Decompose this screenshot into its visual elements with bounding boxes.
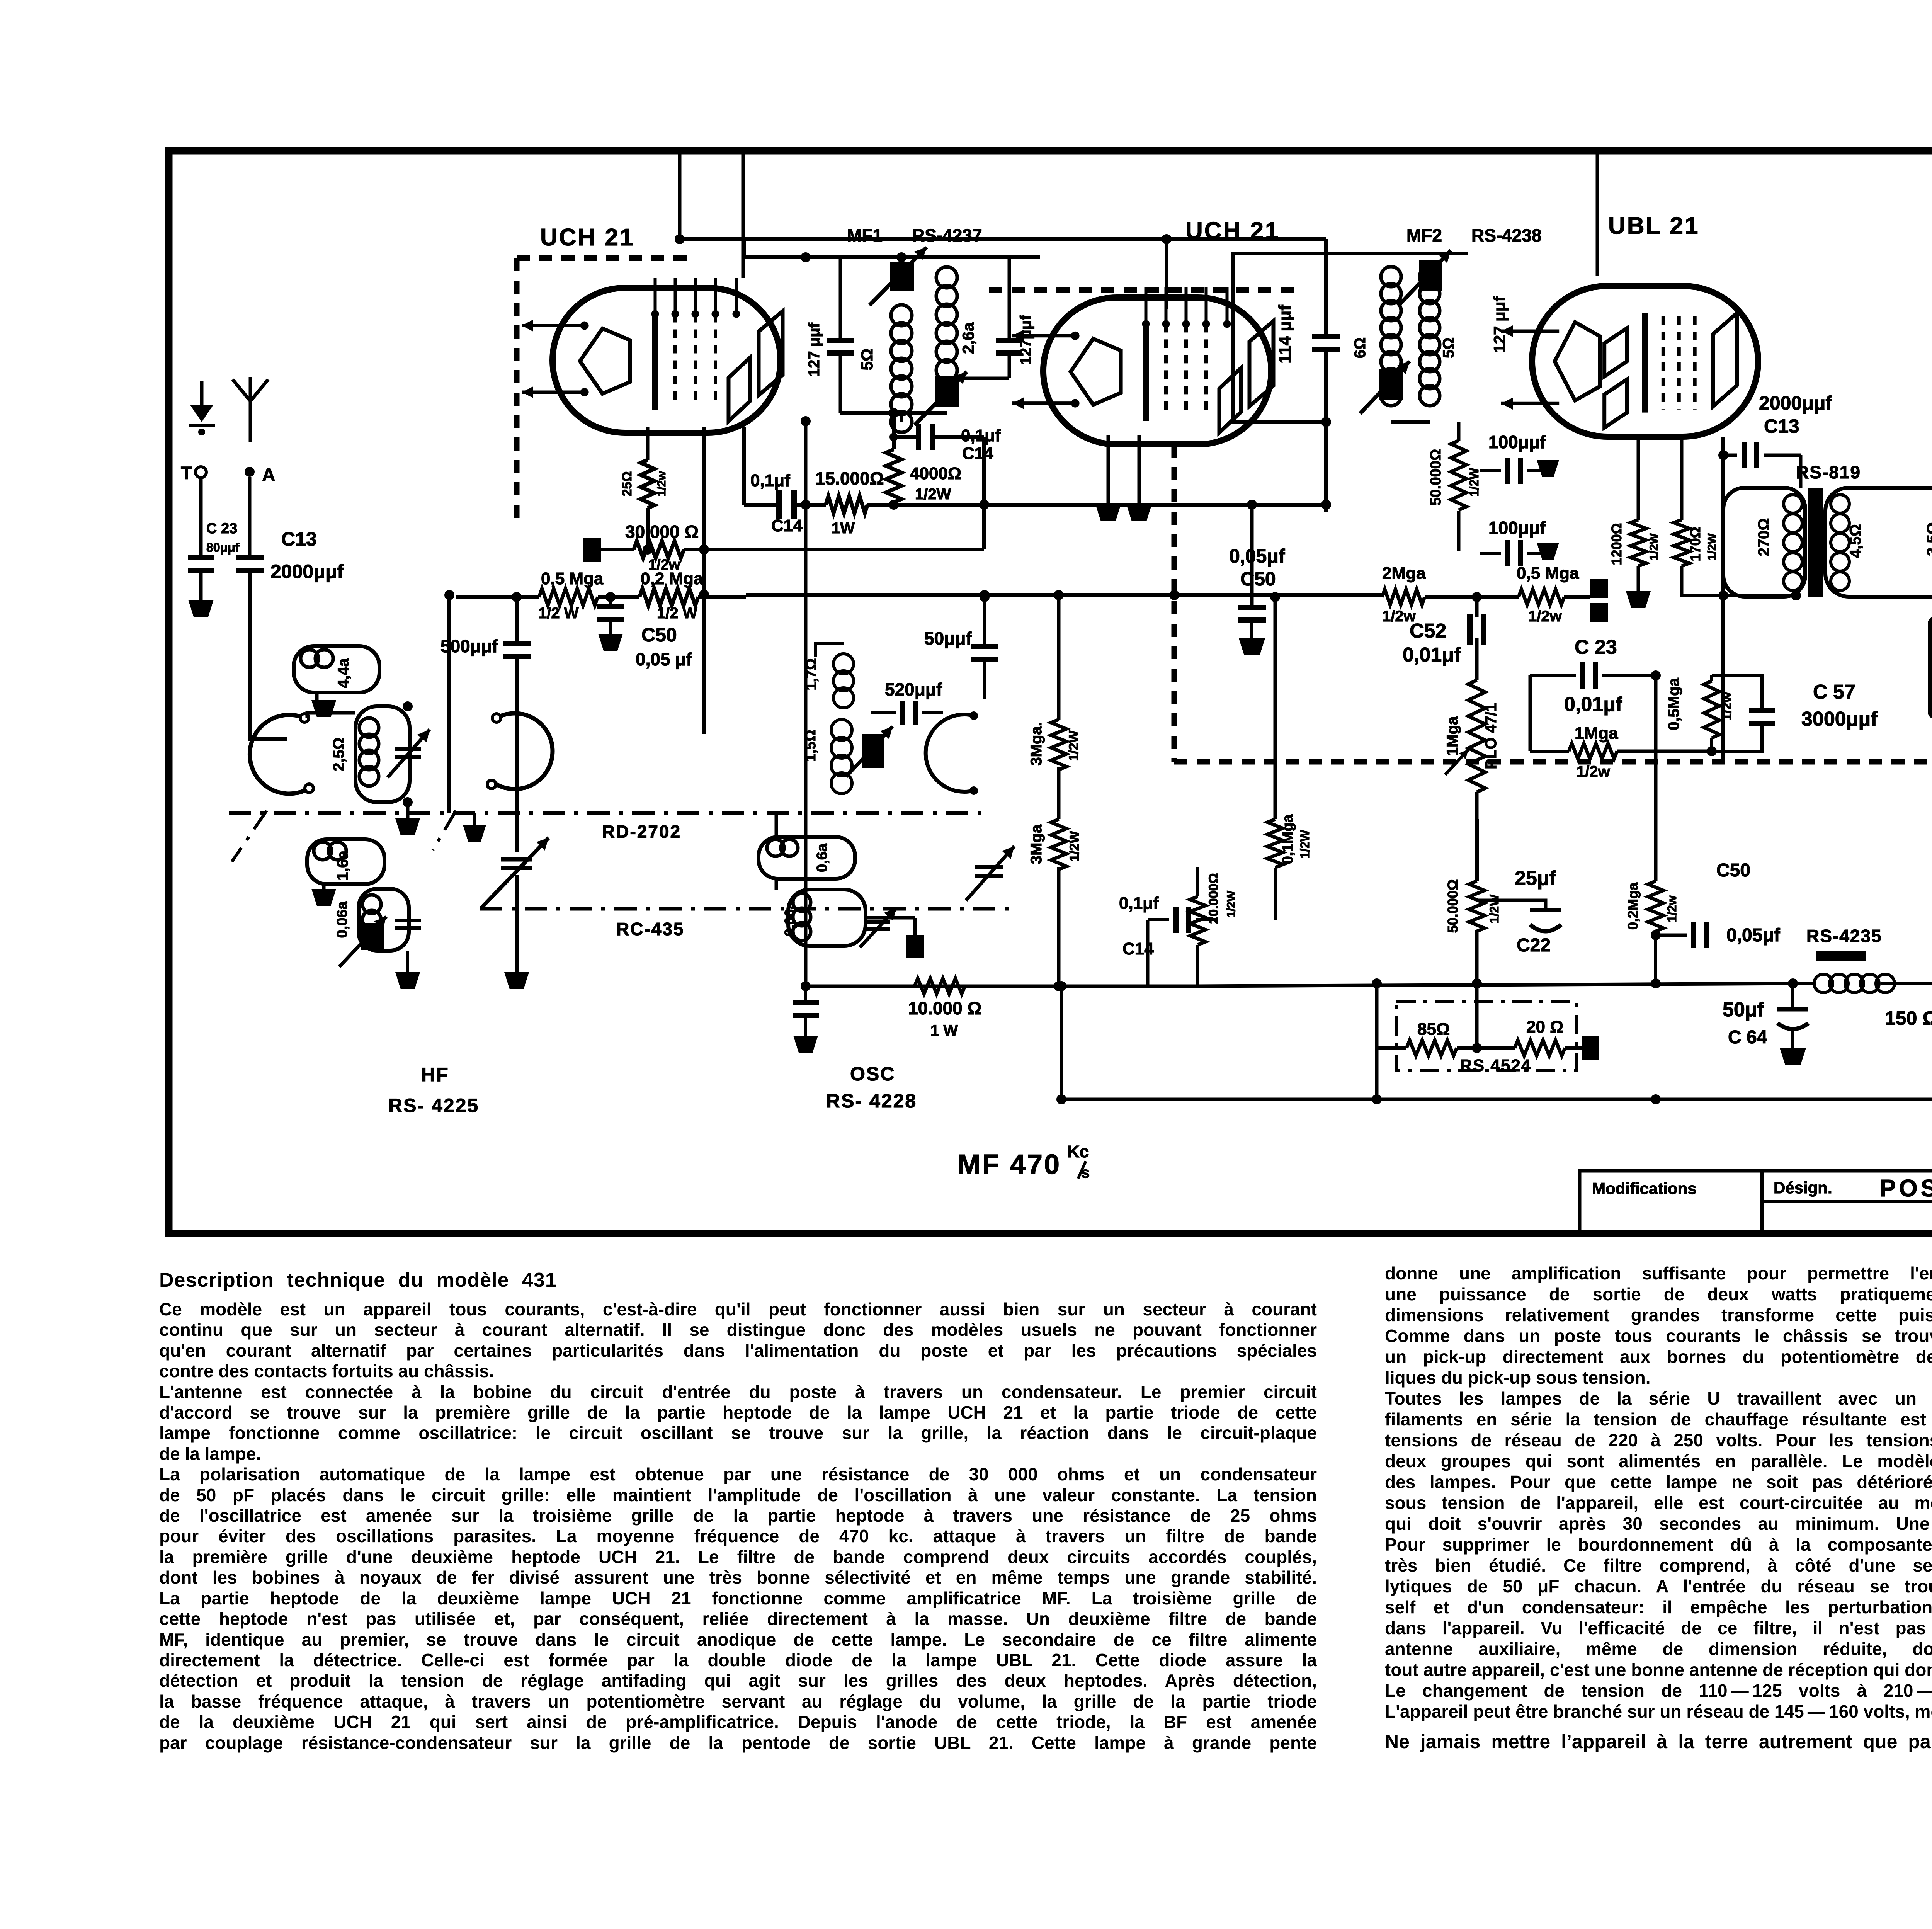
- svg-text:2,5Ω: 2,5Ω: [330, 737, 347, 771]
- resistor 3Mg ohm no2: [1028, 819, 1082, 986]
- coil 2.5 ohm HF secondary: [330, 701, 413, 807]
- avc resistor 0.2 Mg ohm: [598, 569, 746, 622]
- resistor 4000 ohm half watt: [886, 413, 961, 505]
- label 127uuf UBL grid: [1490, 296, 1509, 353]
- label HF: [421, 1064, 449, 1085]
- svg-text:RS-4238: RS-4238: [1471, 225, 1542, 245]
- label RS-4225: [388, 1095, 479, 1116]
- filter choke self: [1930, 597, 1932, 833]
- MF2 secondary coil: [1399, 250, 1457, 406]
- resistor 0.1Mg ohm: [1267, 592, 1312, 920]
- ground for coil 1.6: [311, 889, 336, 906]
- capacitor 127uuf MF1 right: [947, 257, 1034, 378]
- coil 4.4 ohm antenna primary: [294, 646, 379, 700]
- svg-text:UCH 21: UCH 21: [540, 224, 635, 251]
- wire left of ground bus: [1056, 981, 1066, 1099]
- svg-text:PLO 47/1: PLO 47/1: [1483, 703, 1500, 769]
- coil 0.6 ohm osc: [759, 813, 855, 879]
- svg-text:C13: C13: [281, 528, 317, 550]
- tube UBL21: [1501, 286, 1758, 437]
- svg-text:C 64: C 64: [1728, 1027, 1767, 1048]
- resistor 2Mg ohm: [1382, 564, 1519, 625]
- wire A to C13: [248, 477, 252, 556]
- resistor 1200 ohm screen: [1609, 437, 1660, 608]
- svg-text:2000μμf: 2000μμf: [1759, 392, 1832, 414]
- svg-text:1/2W: 1/2W: [1225, 890, 1238, 918]
- grounds under tube2: [1095, 435, 1152, 521]
- ground osc tuning: [504, 972, 529, 989]
- svg-text:1,6a: 1,6a: [334, 850, 351, 881]
- svg-text:50μf: 50μf: [1723, 999, 1764, 1021]
- svg-text:Désign.: Désign.: [1774, 1179, 1832, 1197]
- label MF 470 kc: [957, 1142, 1090, 1181]
- capacitor 100uuf no2: [1480, 518, 1559, 566]
- label UCH21 first tube: [540, 224, 635, 251]
- output transformer secondary: [1825, 488, 1932, 597]
- label MF1 RS-4237: [847, 225, 982, 245]
- svg-text:100μμf: 100μμf: [1488, 432, 1546, 452]
- wire C23 to ground: [199, 573, 203, 600]
- tuning capacitor HF: [388, 730, 430, 777]
- resistor 0.5Mg ohm detector: [1517, 564, 1608, 625]
- resistor 1Mg ohm AF: [1530, 724, 1712, 780]
- svg-text:5Ω: 5Ω: [858, 348, 876, 370]
- svg-text:s: s: [1081, 1164, 1090, 1181]
- svg-text:1W: 1W: [832, 520, 855, 537]
- band switch segment osc: [926, 711, 978, 795]
- resistor 50000 ohm AF cathode: [1445, 819, 1501, 983]
- resistor 20000 ohm: [1190, 867, 1238, 986]
- capacitor C13 2000uuf: [236, 528, 344, 582]
- svg-text:50.000Ω: 50.000Ω: [1428, 449, 1444, 506]
- svg-text:500μμf: 500μμf: [440, 636, 498, 656]
- capacitor 50uuf osc: [924, 592, 998, 699]
- wire frame top to bus: [678, 154, 682, 239]
- svg-text:1/2 W: 1/2 W: [657, 605, 697, 622]
- svg-text:Modifications: Modifications: [1592, 1179, 1697, 1198]
- resistor 25 ohm cathode: [620, 427, 668, 555]
- resistor 3Mg ohm no1: [1028, 591, 1081, 819]
- svg-text:1/2W: 1/2W: [1648, 533, 1660, 560]
- svg-text:1Mga: 1Mga: [1444, 716, 1461, 756]
- svg-text:10.000 Ω: 10.000 Ω: [908, 998, 981, 1018]
- svg-text:2000μμf: 2000μμf: [270, 561, 344, 582]
- svg-text:Kc: Kc: [1067, 1142, 1089, 1161]
- terminal T: [181, 463, 206, 483]
- resistor 85 ohm: [1377, 1020, 1457, 1056]
- svg-text:4,5Ω: 4,5Ω: [1847, 524, 1864, 558]
- svg-text:0,5 Mga: 0,5 Mga: [541, 569, 604, 588]
- capacitor 520uuf osc: [871, 679, 943, 725]
- MF2 primary coil: [1352, 267, 1410, 413]
- terminal A: [245, 465, 276, 485]
- capacitor C23 0.01uf: [1530, 636, 1661, 751]
- svg-text:3000μμf: 3000μμf: [1801, 708, 1878, 730]
- svg-text:C14: C14: [962, 444, 993, 463]
- svg-text:RS-4237: RS-4237: [912, 225, 982, 245]
- label MF2 RS-4238: [1406, 225, 1542, 245]
- svg-text:1/2w: 1/2w: [655, 471, 668, 497]
- resistor 0.2Mg AVC: [1625, 675, 1679, 988]
- wire ground bus to RS4524: [1372, 978, 1382, 1099]
- svg-text:RS-819: RS-819: [1796, 462, 1861, 482]
- label RC-435: [616, 919, 685, 939]
- svg-text:1/2W: 1/2W: [1706, 533, 1718, 560]
- svg-text:0,05 μf: 0,05 μf: [636, 649, 692, 669]
- wire frame top to tube1 grid: [742, 154, 745, 278]
- heading description technique: [159, 1269, 557, 1292]
- ground bus: [1056, 1094, 1932, 1104]
- svg-text:1200Ω: 1200Ω: [1609, 523, 1624, 565]
- dashed shield MF1 to tube2: [989, 287, 1298, 293]
- svg-text:100μμf: 100μμf: [1488, 518, 1546, 538]
- wire tube1 plate down: [699, 427, 709, 734]
- svg-text:520μμf: 520μμf: [885, 679, 942, 699]
- svg-text:1/2W: 1/2W: [1467, 468, 1481, 497]
- svg-text:1/2 W: 1/2 W: [538, 605, 579, 622]
- label RS 4524: [1460, 1056, 1531, 1075]
- svg-text:0,1μf: 0,1μf: [1119, 894, 1159, 913]
- svg-text:50.000Ω: 50.000Ω: [1445, 879, 1461, 933]
- wire T to C23: [199, 477, 203, 556]
- svg-text:0,05μf: 0,05μf: [1229, 545, 1285, 567]
- svg-text:0,06a: 0,06a: [782, 901, 798, 936]
- wire avc bus to HF coil: [444, 590, 454, 813]
- svg-text:C13: C13: [1764, 415, 1799, 437]
- svg-text:C22: C22: [1517, 935, 1551, 956]
- ground osc grid line: [463, 813, 486, 842]
- svg-text:25μf: 25μf: [1515, 867, 1556, 890]
- output transformer core: [1808, 488, 1823, 597]
- svg-text:MF 470: MF 470: [957, 1149, 1061, 1180]
- grid bus y1306: [867, 500, 1331, 510]
- svg-text:C50: C50: [1716, 860, 1750, 881]
- svg-text:C 23: C 23: [206, 521, 237, 537]
- svg-text:80μμf: 80μμf: [206, 541, 240, 555]
- left text column: [159, 1299, 1317, 1753]
- antenna symbol: [233, 377, 268, 442]
- label UBL21 output tube: [1608, 213, 1700, 239]
- svg-text:MF1: MF1: [847, 225, 883, 245]
- earth terminal symbol: [189, 381, 215, 435]
- wire osc left vertical: [801, 416, 811, 986]
- capacitor 0.1uf C14 osc: [1119, 894, 1217, 986]
- capacitor C52 0.01uf: [1403, 592, 1486, 666]
- svg-text:4000Ω: 4000Ω: [910, 464, 961, 483]
- wire coil to ground left: [406, 951, 409, 972]
- dashdot box RS4524: [1396, 1002, 1577, 1070]
- wire pot top to C52: [1472, 592, 1482, 617]
- avc resistor 0.5 Mg ohm: [456, 569, 604, 622]
- coil 0.06 ohm coupling: [334, 889, 409, 967]
- svg-text:270Ω: 270Ω: [1755, 518, 1772, 556]
- svg-text:0,1μf: 0,1μf: [750, 471, 790, 490]
- svg-text:0,01μf: 0,01μf: [1564, 693, 1622, 716]
- svg-text:6Ω: 6Ω: [1352, 337, 1369, 358]
- label RS-819: [1796, 462, 1861, 482]
- resistor 10000 ohm 1W: [908, 978, 981, 1039]
- svg-text:20.000Ω: 20.000Ω: [1206, 873, 1221, 924]
- capacitor osc bypass: [793, 986, 819, 1053]
- svg-text:2,6a: 2,6a: [959, 322, 977, 354]
- svg-text:20 Ω: 20 Ω: [1526, 1017, 1563, 1036]
- volume potentiometer 1Mg PLO47: [1444, 638, 1500, 819]
- svg-text:A: A: [262, 465, 276, 485]
- resistor 20 ohm: [1457, 1017, 1599, 1060]
- capacitor 100uuf no1: [1480, 432, 1559, 484]
- svg-text:0,05μf: 0,05μf: [1726, 925, 1781, 946]
- svg-text:MF2: MF2: [1406, 225, 1442, 245]
- svg-text:150 Ω: 150 Ω: [1885, 1007, 1932, 1029]
- svg-text:4,4a: 4,4a: [335, 658, 352, 688]
- wire tube1 grid pin down: [742, 427, 746, 505]
- svg-text:1/2W: 1/2W: [1298, 830, 1312, 859]
- svg-text:5Ω: 5Ω: [1440, 337, 1457, 358]
- ground HF mid: [395, 818, 420, 835]
- svg-text:1 W: 1 W: [930, 1022, 958, 1039]
- bottom HT bus: [1198, 978, 1932, 988]
- osc tuning gang capacitor: [481, 838, 549, 972]
- svg-text:127 μμf: 127 μμf: [1490, 296, 1509, 353]
- title block modifications box: [1580, 1171, 1762, 1232]
- schematic border frame: [169, 151, 1932, 1233]
- wire MF1 top feed: [744, 238, 1040, 262]
- svg-text:3Mga.: 3Mga.: [1028, 722, 1045, 765]
- capacitor 0.1uf C14 no2: [889, 424, 1001, 549]
- mechanical link RC-435: [480, 907, 1016, 911]
- svg-text:RS- 4228: RS- 4228: [826, 1090, 917, 1112]
- band switch segment HF 1: [232, 714, 313, 862]
- resistor 170 ohm cathode: [1674, 437, 1718, 597]
- tube UCH21 no1: [522, 278, 783, 433]
- svg-text:T: T: [181, 463, 192, 483]
- svg-text:3Mga: 3Mga: [1028, 824, 1045, 864]
- electrolytic 50uf C64 no1: [1723, 983, 1808, 1065]
- capacitor 127uuf MF1 left: [806, 257, 854, 413]
- resistor 30000 ohm osc grid: [583, 522, 984, 573]
- MF1 primary coil 5 ohm: [858, 247, 927, 432]
- svg-text:170Ω: 170Ω: [1687, 527, 1703, 561]
- anode bus y619: [675, 234, 1326, 244]
- wire HF coil to switch: [307, 713, 355, 718]
- svg-text:0,2Mga: 0,2Mga: [1625, 882, 1641, 930]
- grid bus avc: [746, 590, 1382, 600]
- wire tube2 plate top: [1165, 239, 1168, 309]
- dashed shield tube2 down: [1174, 444, 1932, 762]
- tuning capacitor osc: [966, 846, 1014, 900]
- right text column: [1385, 1263, 1932, 1722]
- capacitor 114uuf: [1233, 239, 1340, 512]
- svg-text:15.000Ω: 15.000Ω: [815, 468, 884, 488]
- svg-text:0,5Mga: 0,5Mga: [1665, 677, 1682, 730]
- coil 1.5 ohm osc: [803, 720, 893, 794]
- svg-text:127 μμf: 127 μμf: [806, 322, 823, 377]
- svg-text:POSTE RADIO TYPE 431: POSTE RADIO TYPE 431: [1880, 1175, 1932, 1202]
- label UCH21 second tube: [1185, 218, 1280, 244]
- svg-text:0,2 Mga: 0,2 Mga: [641, 569, 703, 588]
- svg-text:1/2W: 1/2W: [915, 486, 951, 503]
- ground for antenna coil: [311, 700, 336, 717]
- resistor 50000 ohm MF2: [1428, 441, 1481, 551]
- capacitor C50 0.05uf no2: [1229, 505, 1285, 655]
- label OSC: [850, 1063, 895, 1085]
- transformer bottom bus: [1682, 590, 1801, 600]
- capacitor C57 3000uuf: [1801, 681, 1878, 730]
- capacitor C23: [188, 521, 240, 573]
- capacitor C50 0.05uf no3: [1651, 860, 1781, 948]
- svg-text:1Mga: 1Mga: [1575, 724, 1618, 743]
- svg-text:2Mga: 2Mga: [1382, 564, 1426, 583]
- wire UBL plate down: [1721, 437, 1725, 762]
- svg-text:1/2W: 1/2W: [1067, 830, 1082, 861]
- capacitor C22 25uf: [1477, 867, 1561, 956]
- svg-text:UBL 21: UBL 21: [1608, 213, 1700, 239]
- tuning capacitor 2: [395, 920, 421, 928]
- svg-text:1/2w: 1/2w: [1577, 763, 1611, 780]
- MF1 bottom wire: [840, 408, 947, 422]
- svg-text:0,06a: 0,06a: [334, 901, 350, 938]
- svg-text:3,5Ω: 3,5Ω: [1924, 522, 1932, 556]
- svg-text:1/2W: 1/2W: [1487, 894, 1501, 923]
- svg-text:C52: C52: [1410, 620, 1446, 642]
- wire A coupling down: [250, 573, 287, 739]
- bold warning line: [1385, 1730, 1932, 1753]
- capacitor C50 0.05uf no1: [597, 597, 692, 669]
- capacitor 500uuf grid: [440, 592, 531, 852]
- wire MF2 top feed: [1328, 252, 1468, 255]
- MF1 secondary coil 2.6 ohm: [915, 267, 977, 425]
- MF2 bottom wire: [1391, 422, 1459, 441]
- svg-text:RS-4235: RS-4235: [1806, 926, 1882, 946]
- mechanical link RD-2702: [229, 811, 989, 815]
- svg-text:OSC: OSC: [850, 1063, 895, 1085]
- svg-text:114 μμf: 114 μμf: [1276, 305, 1294, 364]
- coil 1.7 ohm osc: [803, 644, 854, 708]
- choke RS-4235: [1806, 926, 1932, 1029]
- wire HF coil down: [406, 802, 410, 818]
- svg-text:HF: HF: [421, 1064, 449, 1085]
- svg-text:C 23: C 23: [1575, 636, 1617, 658]
- capacitor 2000uuf C13 det: [1718, 392, 1832, 488]
- ground under C23: [188, 600, 214, 617]
- title block designation box: [1762, 1171, 1932, 1232]
- svg-text:RC-435: RC-435: [616, 919, 685, 939]
- svg-text:1/2w: 1/2w: [1528, 608, 1562, 625]
- osc cathode bus: [801, 981, 1198, 991]
- capacitor 0.1uf C14 no1: [744, 471, 826, 535]
- coil 0.06 ohm osc: [776, 879, 924, 958]
- resistor 0.5Mg grid UBL: [1665, 675, 1775, 756]
- output transformer primary: [1723, 488, 1805, 597]
- svg-text:0,5 Mga: 0,5 Mga: [1517, 564, 1579, 583]
- tube UCH21 no2: [1012, 287, 1274, 444]
- resistor 15000 ohm: [815, 468, 884, 537]
- ground HF tuning: [395, 972, 420, 989]
- svg-text:RD-2702: RD-2702: [602, 822, 681, 842]
- wire pot cathode to 85ohm: [1472, 978, 1482, 1048]
- svg-text:C50: C50: [641, 624, 677, 646]
- wire MF2 to tube3: [1596, 154, 1599, 276]
- label RS-4228: [826, 1090, 917, 1112]
- svg-text:0,6a: 0,6a: [814, 843, 830, 872]
- svg-text:1/2w: 1/2w: [1665, 895, 1679, 922]
- svg-text:1/2W: 1/2W: [1066, 730, 1081, 761]
- svg-text:50μμf: 50μμf: [924, 628, 972, 648]
- svg-text:C14: C14: [771, 516, 803, 535]
- coil 1.6 ohm antenna secondary: [307, 839, 384, 889]
- shield dashed line tube1: [517, 258, 696, 518]
- svg-text:25Ω: 25Ω: [620, 471, 634, 496]
- band switch segment HF 2: [433, 713, 553, 850]
- svg-text:0,01μf: 0,01μf: [1403, 644, 1461, 666]
- svg-text:C50: C50: [1240, 568, 1276, 590]
- svg-text:RS- 4225: RS- 4225: [388, 1095, 479, 1116]
- label RD-2702: [602, 822, 681, 842]
- svg-text:C 57: C 57: [1813, 681, 1855, 703]
- svg-text:RS 4524: RS 4524: [1460, 1056, 1531, 1075]
